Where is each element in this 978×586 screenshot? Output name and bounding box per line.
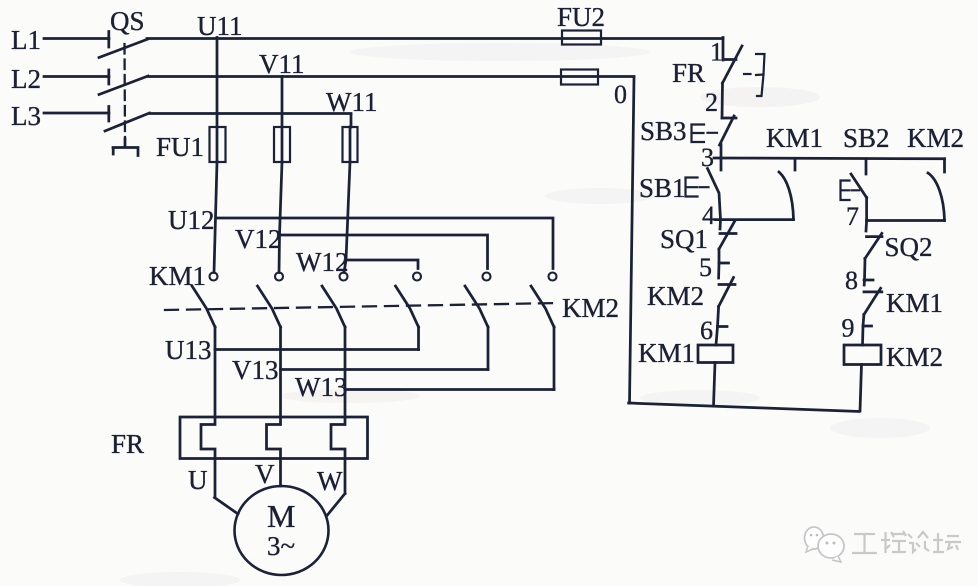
svg-text:U12: U12: [168, 205, 215, 235]
svg-text:KM1: KM1: [149, 261, 206, 291]
svg-text:FU1: FU1: [156, 132, 204, 162]
svg-text:KM2: KM2: [647, 281, 704, 311]
svg-text:M: M: [267, 498, 295, 534]
svg-text:KM2: KM2: [562, 293, 619, 323]
svg-text:3~: 3~: [267, 531, 295, 561]
svg-text:FR: FR: [672, 58, 705, 88]
svg-text:W: W: [317, 466, 343, 496]
svg-text:V: V: [255, 459, 275, 489]
svg-text:KM1: KM1: [886, 288, 943, 318]
svg-text:U13: U13: [165, 335, 212, 365]
svg-text:U11: U11: [197, 11, 243, 41]
svg-text:5: 5: [699, 253, 712, 282]
svg-text:SQ2: SQ2: [885, 232, 933, 262]
svg-text:L3: L3: [11, 101, 41, 131]
svg-text:3: 3: [701, 143, 714, 172]
svg-text:KM1: KM1: [766, 123, 823, 153]
svg-text:FU2: FU2: [557, 2, 605, 32]
svg-text:4: 4: [702, 201, 715, 230]
svg-text:8: 8: [845, 266, 858, 295]
svg-text:FR: FR: [111, 429, 144, 459]
svg-text:W11: W11: [326, 87, 377, 117]
svg-text:SB2: SB2: [843, 123, 890, 153]
svg-text:0: 0: [614, 80, 627, 109]
svg-text:SB3: SB3: [640, 116, 687, 146]
svg-text:7: 7: [846, 202, 859, 231]
svg-text:V11: V11: [259, 49, 305, 79]
svg-text:U: U: [188, 465, 208, 495]
svg-text:V13: V13: [232, 355, 279, 385]
svg-text:QS: QS: [110, 6, 145, 36]
svg-text:KM2: KM2: [907, 123, 964, 153]
svg-text:SQ1: SQ1: [660, 224, 708, 254]
svg-text:KM1: KM1: [638, 338, 695, 368]
svg-text:2: 2: [705, 88, 718, 117]
svg-text:W12: W12: [296, 247, 348, 277]
svg-text:W13: W13: [295, 372, 347, 402]
svg-text:V12: V12: [235, 224, 282, 254]
svg-text:6: 6: [700, 316, 713, 345]
svg-text:1: 1: [710, 38, 723, 67]
svg-text:L1: L1: [11, 25, 41, 55]
svg-text:KM2: KM2: [886, 342, 943, 372]
svg-text:SB1: SB1: [639, 173, 686, 203]
svg-text:9: 9: [842, 314, 855, 343]
svg-text:L2: L2: [11, 64, 41, 94]
